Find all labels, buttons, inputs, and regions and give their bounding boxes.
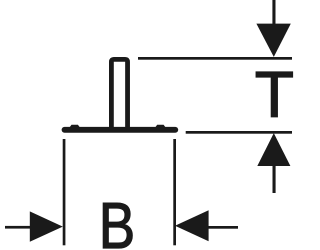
B left arrow tail xyxy=(5,226,31,229)
T up-arrow tail xyxy=(273,164,276,193)
plate (horizontal flange bar of part) xyxy=(65,127,176,133)
T down arrowhead xyxy=(256,24,290,57)
stem (vertical tube outline of part) xyxy=(111,59,127,131)
svg-text:T: T xyxy=(255,59,294,131)
right bump on plate xyxy=(155,125,167,128)
B left arrowhead xyxy=(30,211,63,241)
lower T dimension line (bottom of plate level) xyxy=(186,131,292,134)
right extension line (B) xyxy=(173,139,176,245)
left extension line (B) xyxy=(63,139,66,245)
upper T dimension line (top of stem level) xyxy=(138,57,292,60)
T up arrowhead xyxy=(257,133,290,166)
T down-arrow tail xyxy=(272,0,275,25)
left bump on plate xyxy=(69,125,81,128)
B right arrowhead xyxy=(175,210,209,241)
B right arrow tail xyxy=(208,226,238,229)
svg-text:B: B xyxy=(99,190,135,250)
